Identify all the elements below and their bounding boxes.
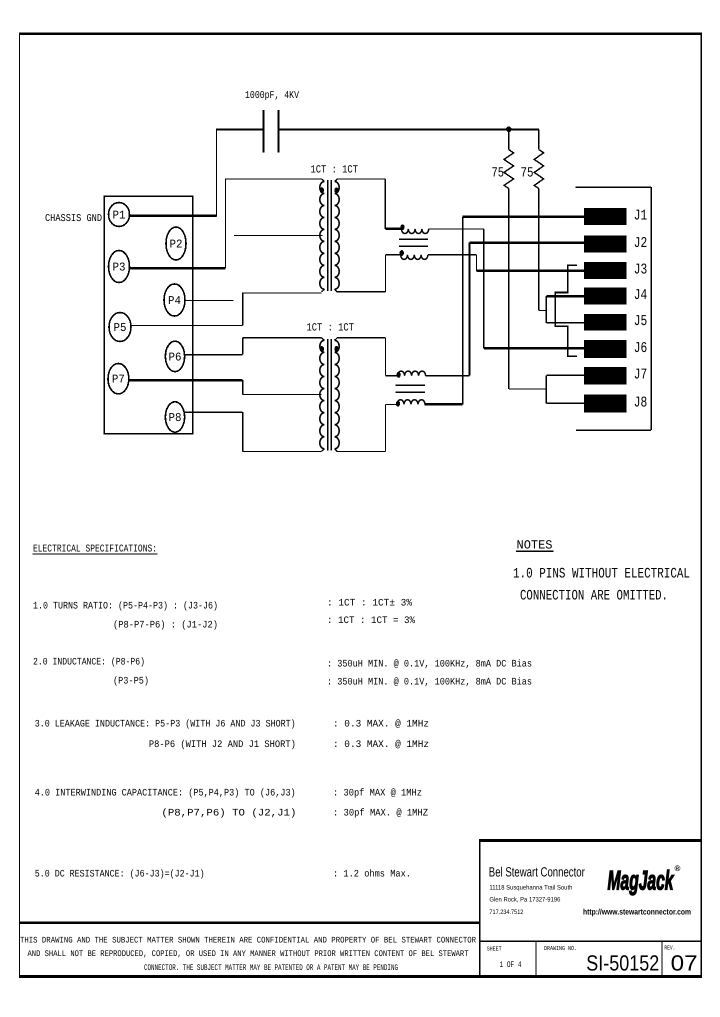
svg-text:NOTES: NOTES (517, 539, 553, 553)
svg-text:3.0 LEAKAGE INDUCTANCE: P5-P3: 3.0 LEAKAGE INDUCTANCE: P5-P3 (WITH J6 A… (35, 719, 296, 731)
svg-text:717.234.7512: 717.234.7512 (489, 909, 523, 916)
svg-text:®: ® (675, 864, 681, 873)
svg-text:: 1CT : 1CT = 3%: : 1CT : 1CT = 3% (327, 616, 415, 627)
svg-text:P3: P3 (113, 261, 126, 275)
svg-text:1.0 PINS WITHOUT ELECTRICAL: 1.0 PINS WITHOUT ELECTRICAL (513, 567, 690, 583)
svg-text:AND SHALL NOT BE REPRODUCED, C: AND SHALL NOT BE REPRODUCED, COPIED, OR … (28, 949, 469, 959)
svg-text:P7: P7 (112, 373, 125, 387)
svg-text:5.0 DC RESISTANCE: (J6-J3)=(J2: 5.0 DC RESISTANCE: (J6-J3)=(J2-J1) (35, 869, 205, 881)
svg-text:(P8-P7-P6) : (J1-J2): (P8-P7-P6) : (J1-J2) (113, 620, 218, 632)
svg-text:http://www.stewartconnector.co: http://www.stewartconnector.com (583, 908, 691, 917)
svg-text:: 30pf MAX. @ 1MHZ: : 30pf MAX. @ 1MHZ (333, 808, 428, 820)
svg-text:SI-50152: SI-50152 (586, 951, 659, 976)
svg-text:1.0 TURNS RATIO: (P5-P4-P3) :: 1.0 TURNS RATIO: (P5-P4-P3) : (J3-J6) (33, 601, 218, 613)
svg-text:P2: P2 (170, 238, 183, 252)
svg-text:P6: P6 (169, 350, 182, 364)
svg-text:J3: J3 (634, 261, 648, 278)
svg-text:: 350uH MIN. @ 0.1V, 100KHz, 8: : 350uH MIN. @ 0.1V, 100KHz, 8mA DC Bias (327, 677, 532, 689)
svg-text:P8: P8 (169, 411, 182, 425)
svg-text:P8-P6 (WITH J2 AND J1 SHORT): P8-P6 (WITH J2 AND J1 SHORT) (149, 739, 296, 751)
svg-text:Bel Stewart Connector: Bel Stewart Connector (489, 865, 585, 880)
svg-text:CONNECTOR. THE SUBJECT MATTER: CONNECTOR. THE SUBJECT MATTER MAY BE PAT… (144, 963, 398, 973)
svg-text:: 350uH MIN. @ 0.1V, 100KHz, 8: : 350uH MIN. @ 0.1V, 100KHz, 8mA DC Bias (327, 659, 532, 671)
svg-text:SHEET: SHEET (487, 946, 502, 953)
svg-text:P5: P5 (114, 321, 127, 335)
svg-text:11118 Susquehanna Trail South: 11118 Susquehanna Trail South (489, 884, 572, 891)
svg-text:DRAWING NO.: DRAWING NO. (544, 945, 577, 952)
svg-text:J4: J4 (634, 287, 648, 304)
svg-text:: 1.2 ohms Max.: : 1.2 ohms Max. (333, 869, 411, 881)
svg-text:75: 75 (492, 166, 505, 182)
svg-text:(P8,P7,P6) TO (J2,J1): (P8,P7,P6) TO (J2,J1) (161, 808, 296, 820)
svg-text:THIS DRAWING AND THE SUBJECT M: THIS DRAWING AND THE SUBJECT MATTER SHOW… (20, 936, 476, 946)
svg-text:75: 75 (521, 166, 534, 182)
svg-text:07: 07 (671, 951, 698, 976)
svg-text:: 30pf MAX @ 1MHz: : 30pf MAX @ 1MHz (333, 788, 422, 800)
svg-text:: 0.3 MAX. @ 1MHz: : 0.3 MAX. @ 1MHz (333, 739, 429, 751)
svg-text:CONNECTION ARE OMITTED.: CONNECTION ARE OMITTED. (520, 589, 668, 605)
svg-text:1000pF, 4KV: 1000pF, 4KV (245, 90, 300, 102)
svg-text:J7: J7 (634, 367, 648, 384)
svg-text:J5: J5 (634, 313, 648, 330)
svg-text:: 1CT : 1CT± 3%: : 1CT : 1CT± 3% (327, 599, 412, 610)
svg-text:4.0 INTERWINDING CAPACITANCE:: 4.0 INTERWINDING CAPACITANCE: (P5,P4,P3)… (35, 788, 296, 800)
svg-text:2.0 INDUCTANCE: (P8-P6): 2.0 INDUCTANCE: (P8-P6) (33, 657, 145, 669)
svg-text:CHASSIS GND: CHASSIS GND (45, 213, 102, 225)
svg-text:(P3-P5): (P3-P5) (113, 676, 149, 688)
svg-text:MagJack: MagJack (608, 866, 675, 896)
svg-text:P1: P1 (113, 209, 126, 223)
svg-text:1CT : 1CT: 1CT : 1CT (307, 323, 355, 335)
svg-text:1 OF 4: 1 OF 4 (500, 960, 522, 970)
svg-text:J2: J2 (634, 235, 648, 252)
svg-text:J6: J6 (634, 340, 648, 357)
svg-text:1CT : 1CT: 1CT : 1CT (311, 165, 359, 177)
svg-text:J1: J1 (634, 208, 648, 225)
svg-text:Glen Rock, Pa 17327-9196: Glen Rock, Pa 17327-9196 (489, 897, 560, 904)
svg-text:P4: P4 (168, 294, 181, 308)
svg-text:J8: J8 (634, 394, 648, 411)
svg-text:: 0.3 MAX. @ 1MHz: : 0.3 MAX. @ 1MHz (333, 719, 429, 731)
